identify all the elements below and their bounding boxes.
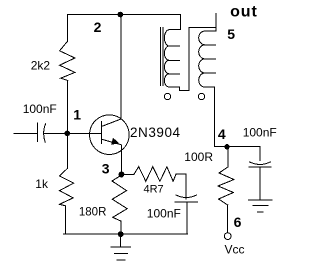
svg-text:Vcc: Vcc bbox=[225, 243, 245, 257]
transformer T1 secondary ticks bbox=[205, 45, 216, 73]
resistor R2 1k body bbox=[59, 169, 73, 206]
wire 1k bottom lead bbox=[64, 206, 66, 234]
transformer T1 primary winding bbox=[164, 30, 169, 87]
wire 100R bottom lead bbox=[227, 205, 229, 233]
wire node3 to 4R7 bbox=[122, 174, 135, 176]
transformer T1 secondary winding bbox=[199, 31, 205, 87]
svg-text:4: 4 bbox=[218, 126, 226, 142]
wire 4R7 to C2 bbox=[176, 174, 186, 199]
capacitor C3 100nF top lead bbox=[259, 147, 261, 161]
transformer T1 secondary bottom lead bbox=[205, 87, 214, 146]
ground GND1 bars bbox=[111, 247, 130, 260]
svg-text:4R7: 4R7 bbox=[144, 184, 164, 196]
svg-text:2: 2 bbox=[94, 19, 102, 35]
resistor R1 2k2 body bbox=[60, 42, 75, 81]
svg-text:100nF: 100nF bbox=[23, 102, 57, 116]
wire C3 bottom lead bbox=[259, 167, 261, 200]
wire top horizontal bbox=[67, 14, 180, 16]
capacitor C3 100nF curved plate bbox=[250, 162, 271, 165]
terminal circle node 6 bbox=[224, 233, 231, 240]
svg-text:2N3904: 2N3904 bbox=[130, 125, 181, 140]
capacitor C2 100nF curved plate bbox=[176, 195, 197, 198]
svg-text:5: 5 bbox=[227, 26, 235, 42]
svg-text:180R: 180R bbox=[79, 206, 107, 218]
transformer T1 core lines bbox=[160, 28, 163, 86]
transistor Q1 emitter lead bbox=[102, 139, 122, 145]
svg-text:out: out bbox=[230, 4, 258, 21]
transformer T1 primary bottom lead bbox=[169, 87, 189, 91]
bottom junction dot bbox=[118, 231, 124, 237]
transformer T1 pin circle right bbox=[198, 93, 204, 99]
svg-text:1: 1 bbox=[73, 107, 81, 123]
wire collector rail bbox=[120, 15, 122, 120]
transistor Q1 base bar bbox=[101, 122, 103, 144]
wire node4 horizontal bbox=[214, 146, 260, 148]
transistor Q1 collector lead bbox=[102, 119, 122, 127]
wire C2 bottom lead bbox=[186, 202, 188, 234]
capacitor C2 100nF straight plate bbox=[175, 201, 198, 203]
ground GND2 bars bbox=[249, 200, 272, 212]
wire left rail upper bbox=[66, 15, 68, 42]
svg-text:6: 6 bbox=[234, 214, 242, 230]
svg-text:1k: 1k bbox=[35, 177, 49, 191]
capacitor C1 100nF plate curved bbox=[44, 124, 46, 143]
capacitor C1 100nF plate straight bbox=[36, 123, 38, 142]
resistor R3 180R body bbox=[112, 175, 127, 221]
wire bottom horizontal bbox=[64, 233, 188, 235]
svg-text:2k2: 2k2 bbox=[31, 59, 51, 73]
wire emitter to node 3 bbox=[120, 145, 122, 175]
svg-text:100R: 100R bbox=[184, 150, 213, 164]
wire 180R bottom lead bbox=[120, 221, 122, 234]
wire 2k2 to node 1 bbox=[67, 81, 69, 134]
ground GND1 stem bbox=[120, 234, 122, 246]
node 1 junction dot bbox=[65, 131, 71, 137]
wire out stub bbox=[215, 13, 217, 27]
transformer T1 primary top lead bbox=[169, 15, 180, 30]
transformer T1 middle link bbox=[189, 27, 216, 90]
wire input stub bbox=[14, 133, 37, 135]
transformer T1 primary ticks bbox=[169, 46, 180, 74]
transistor Q1 circle bbox=[90, 115, 130, 155]
node 4 junction dot bbox=[224, 144, 229, 149]
node 2 junction dot bbox=[118, 12, 124, 18]
wire node1 to base bbox=[44, 133, 102, 135]
svg-text:100nF: 100nF bbox=[243, 126, 277, 140]
transformer T1 pin circle left bbox=[164, 93, 170, 99]
svg-text:3: 3 bbox=[102, 161, 110, 177]
transformer T1 secondary top connector bbox=[205, 27, 216, 31]
wire 100R top lead bbox=[227, 147, 229, 167]
capacitor C3 100nF straight plate bbox=[249, 166, 271, 168]
node 3 junction dot bbox=[119, 172, 125, 178]
svg-text:100nF: 100nF bbox=[147, 206, 181, 220]
transistor Q1 emitter arrow bbox=[111, 138, 119, 145]
resistor R4 4R7 body bbox=[134, 167, 176, 182]
resistor R5 100R body bbox=[218, 167, 234, 205]
wire 1k top lead bbox=[66, 134, 68, 169]
